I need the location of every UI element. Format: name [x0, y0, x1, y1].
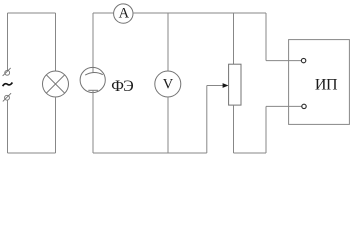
- power supply ИП box: [289, 40, 350, 125]
- supply terminal upper (open circle): [301, 58, 305, 62]
- photocell ФЭ (vacuum phototube): [80, 67, 105, 92]
- wire: wiper riser: [206, 86, 208, 154]
- lamp (circle with X): [43, 71, 69, 97]
- terminal X1 (circle with slash): [3, 68, 11, 76]
- wire: AC loop left upper, from top corner down to plug terminal X1: [7, 13, 9, 70]
- svg-text:ФЭ: ФЭ: [111, 78, 133, 95]
- wire: AC loop top, y=13 from x=7.5 to x=55.5: [8, 12, 56, 14]
- wire: AC loop left lower, from terminal X2 down to bottom corner: [7, 100, 9, 153]
- wire: main top, ammeter to right corner, y=13: [133, 12, 266, 14]
- wire: right riser upper, top corner down to supply + lead: [265, 13, 267, 61]
- wire: voltmeter branch lower: [167, 97, 169, 153]
- wire: wiper horizontal: [207, 85, 223, 87]
- svg-text:V: V: [163, 76, 174, 92]
- supply terminal lower (open circle): [302, 104, 306, 108]
- wire: rheostat branch upper: [233, 13, 235, 64]
- wire: right riser lower, bottom corner up to supply - lead: [265, 106, 267, 153]
- wire: voltmeter branch upper: [167, 13, 169, 71]
- wire: lamp branch lower: [55, 97, 57, 153]
- voltmeter V: [155, 71, 181, 97]
- svg-text:ИП: ИП: [315, 76, 338, 93]
- wire: AC loop bottom, y=153: [8, 152, 56, 154]
- wire: photocell branch upper (into bulb to cathode arc): [92, 13, 94, 73]
- wire: rheostat branch lower: [233, 105, 235, 153]
- AC source symbol ~: [3, 82, 13, 86]
- label ФЭ: [111, 78, 133, 95]
- label ИП: [315, 76, 338, 93]
- wire: photocell branch lower (anode to bottom wire): [92, 90, 94, 153]
- wire: main bottom segment B, y=153 rheostat to right corner: [234, 152, 267, 154]
- wire: main top-left, photocell top corner to ammeter: [93, 12, 114, 14]
- wire: main bottom segment A, y=153 photocell to wiper: [93, 152, 207, 154]
- rheostat R (potentiometer body): [229, 64, 241, 105]
- ammeter A: [114, 4, 133, 23]
- wiper arrowhead: [223, 83, 229, 88]
- wire: supply upper lead: [266, 60, 301, 62]
- svg-text:A: A: [119, 6, 130, 22]
- wire: lamp branch upper: [55, 13, 57, 71]
- wire: supply lower lead: [266, 105, 302, 107]
- terminal X2 (circle with slash): [3, 93, 11, 101]
